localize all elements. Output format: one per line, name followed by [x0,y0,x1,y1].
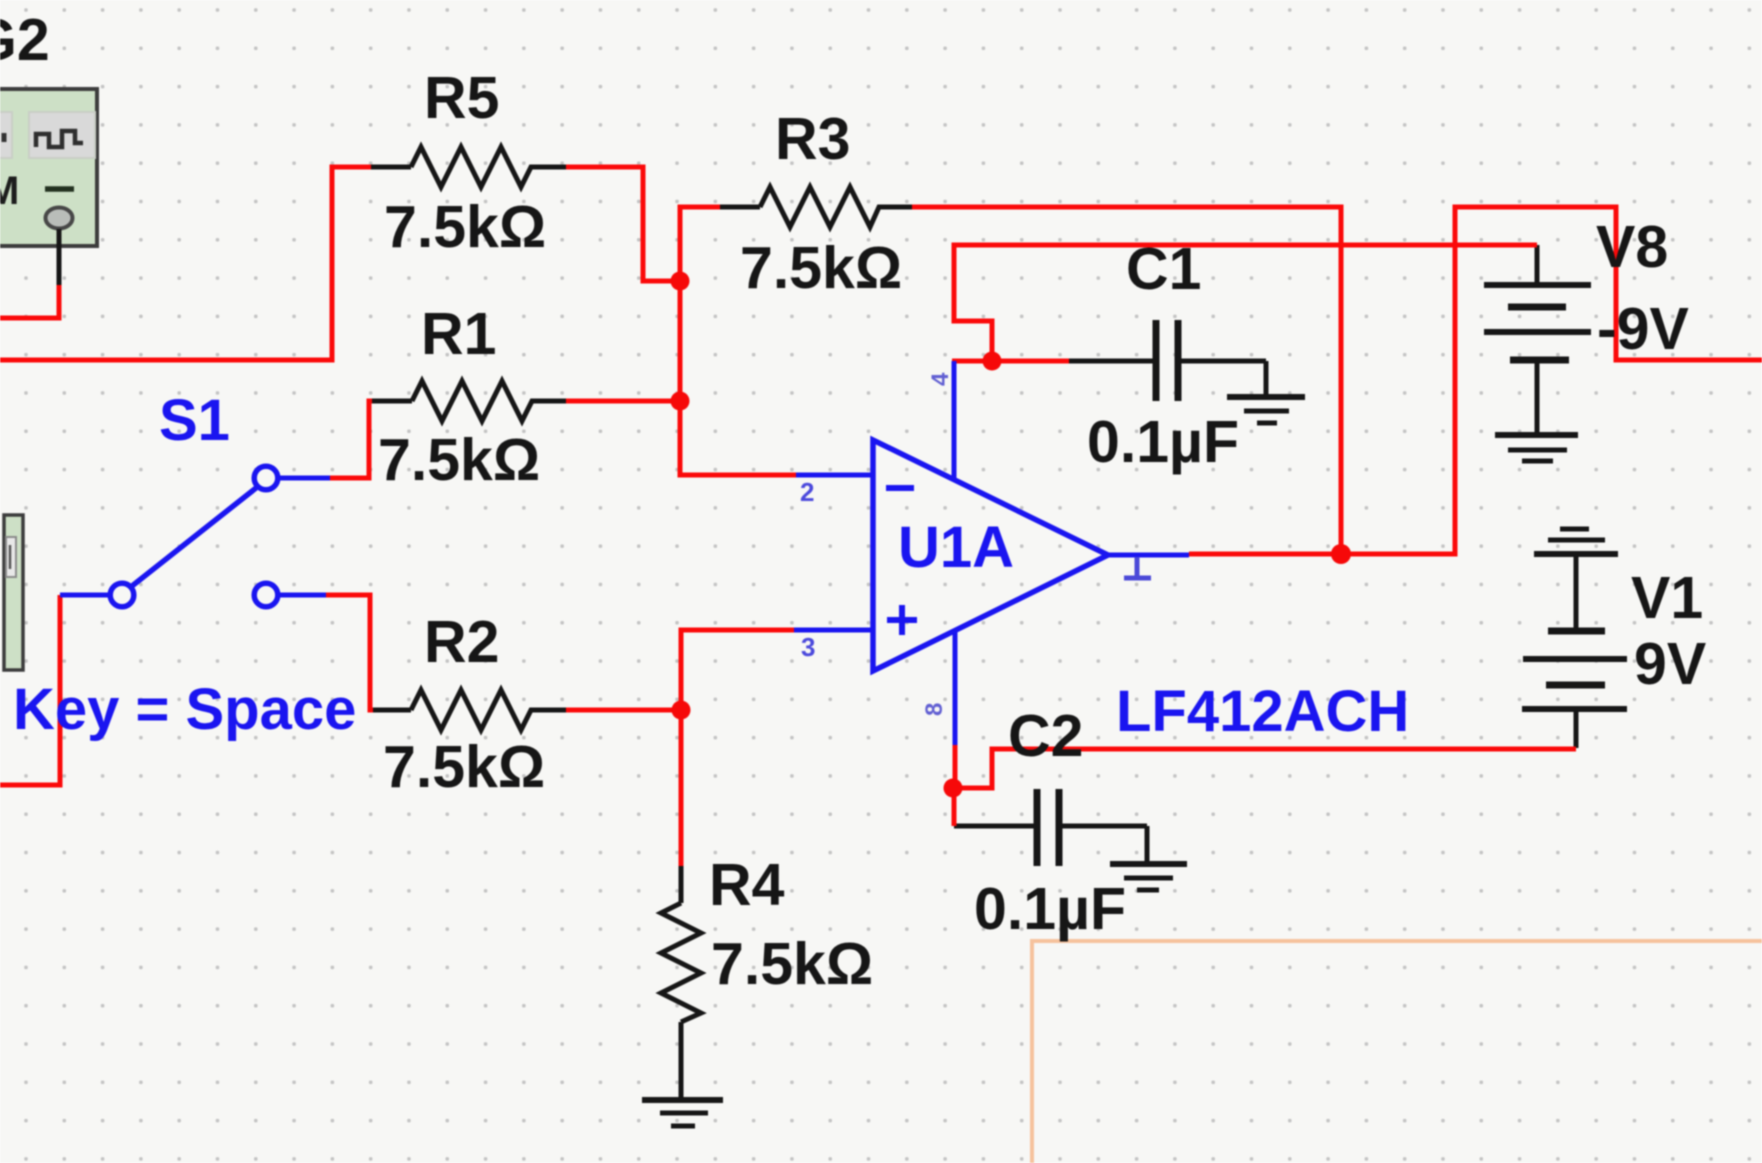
svg-text:R3: R3 [775,106,850,172]
svg-text:R1: R1 [421,301,496,367]
svg-text:9V: 9V [1634,631,1706,697]
svg-text:8: 8 [921,703,948,716]
svg-text:S1: S1 [159,388,230,453]
svg-text:M: M [0,169,19,213]
svg-text:-9V: -9V [1597,296,1689,362]
svg-text:7.5kΩ: 7.5kΩ [378,427,540,493]
svg-text:7.5kΩ: 7.5kΩ [383,734,545,800]
svg-text:V8: V8 [1596,214,1668,280]
svg-text:V1: V1 [1631,565,1703,631]
svg-text:2: 2 [800,477,814,507]
svg-text:4: 4 [927,372,954,386]
svg-text:G2: G2 [0,7,50,73]
svg-text:U1A: U1A [898,515,1014,580]
svg-text:7.5kΩ: 7.5kΩ [740,235,902,301]
svg-text:7.5kΩ: 7.5kΩ [384,194,546,260]
svg-text:3: 3 [801,632,815,662]
svg-text:R5: R5 [424,65,499,131]
svg-text:C2: C2 [1008,703,1083,769]
svg-text:0.1µF: 0.1µF [1087,409,1239,475]
svg-text:LF412ACH: LF412ACH [1116,679,1409,744]
svg-text:0.1µF: 0.1µF [974,876,1126,942]
svg-text:C1: C1 [1126,236,1201,302]
svg-text:Key = Space: Key = Space [13,677,356,742]
svg-text:R2: R2 [424,609,499,675]
svg-text:7.5kΩ: 7.5kΩ [711,931,873,997]
svg-text:R4: R4 [709,852,785,918]
